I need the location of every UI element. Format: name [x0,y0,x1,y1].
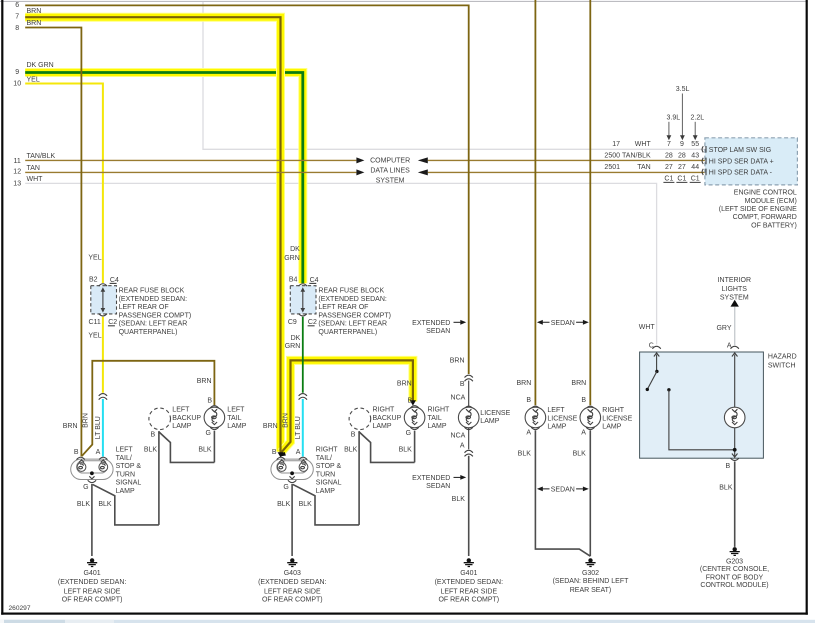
svg-text:28: 28 [678,152,686,159]
svg-text:10: 10 [13,80,21,87]
svg-text:RIGHT: RIGHT [428,407,451,414]
right license lamp BRN vertical [589,0,591,405]
svg-text:BLK: BLK [277,501,291,508]
svg-text:28: 28 [665,152,673,159]
svg-text:LEFT REAR SIDE: LEFT REAR SIDE [64,588,121,595]
left license lamp BRN vertical [534,0,536,405]
svg-text:G: G [83,484,88,491]
svg-text:2501: 2501 [604,164,620,171]
svg-text:G: G [283,484,288,491]
wire 17 WHT vertical+horizontal to ECM [203,2,705,150]
svg-text:A: A [96,449,101,456]
switch blade [647,371,657,389]
svg-text:TAIL/: TAIL/ [316,455,332,462]
svg-text:G: G [205,430,210,437]
svg-text:(SEDAN: BEHIND LEFT: (SEDAN: BEHIND LEFT [553,578,630,585]
svg-text:8: 8 [15,25,19,32]
svg-text:LT BLU: LT BLU [295,416,302,439]
svg-text:11: 11 [14,158,21,165]
svg-text:PASSENGER COMPT): PASSENGER COMPT) [318,312,391,319]
svg-text:B: B [272,449,277,456]
svg-text:55: 55 [691,141,699,148]
svg-text:YEL: YEL [88,333,101,340]
lamp: left license [531,406,539,408]
svg-text:2.2L: 2.2L [690,115,704,122]
svg-text:EXTENDED: EXTENDED [412,475,450,482]
svg-text:(EXTENDED SEDAN:: (EXTENDED SEDAN: [258,579,327,586]
svg-text:LEFT REAR OF: LEFT REAR OF [119,304,169,311]
fuse block C4/C2 left (B2/C11) [88,276,118,326]
svg-text:17: 17 [612,141,620,148]
inline connector on left YEL/LT BLU wire [99,394,107,400]
svg-text:LAMP: LAMP [547,424,566,431]
svg-text:NCA: NCA [451,433,466,440]
wire LT BLU left [102,399,104,457]
svg-text:BRN: BRN [450,358,465,365]
svg-text:LICENSE: LICENSE [602,415,632,422]
wire BLK left backup lamp B to left tail lamp G [159,432,215,463]
wire 11 TAN/BLK row left part [25,159,356,161]
svg-text:BLK: BLK [77,501,91,508]
ground G203 [730,547,740,555]
op ECM box [705,138,798,185]
svg-text:TAN/BLK: TAN/BLK [27,153,56,160]
lamp: right backup (dashed) [349,408,371,430]
lamp: right tail [404,407,425,428]
svg-text:(CENTER CONSOLE,: (CENTER CONSOLE, [700,566,769,573]
svg-text:LICENSE: LICENSE [480,410,510,417]
svg-text:GRN: GRN [285,343,301,350]
svg-text:C9: C9 [288,319,297,326]
svg-text:12: 12 [13,169,21,176]
svg-text:TAIL: TAIL [428,415,442,422]
svg-text:HI SPD SER DATA -: HI SPD SER DATA - [709,169,773,176]
svg-text:LT BLU: LT BLU [95,416,102,439]
svg-text:LAMP: LAMP [428,423,447,430]
svg-text:BLK: BLK [518,451,532,458]
svg-text:BACKUP: BACKUP [172,415,201,422]
svg-text:MODULE (ECM): MODULE (ECM) [745,198,797,205]
svg-text:BRN: BRN [263,423,278,430]
svg-text:SIGNAL: SIGNAL [116,480,142,487]
svg-text:BLK: BLK [573,451,587,458]
lamp: left tail [204,407,225,428]
svg-text:B: B [460,381,465,388]
svg-text:(SEDAN: LEFT REAR: (SEDAN: LEFT REAR [119,321,188,328]
svg-text:(EXTENDED SEDAN:: (EXTENDED SEDAN: [119,296,188,303]
svg-text:(EXTENDED SEDAN:: (EXTENDED SEDAN: [435,579,504,586]
frame left border [1,0,3,615]
svg-text:OF REAR COMPT): OF REAR COMPT) [62,597,123,604]
svg-text:LEFT: LEFT [547,407,565,414]
svg-text:G401: G401 [84,570,101,577]
svg-text:STOP LAM SW SIG: STOP LAM SW SIG [709,147,771,154]
svg-text:G302: G302 [582,570,599,577]
svg-text:B: B [207,398,212,405]
svg-text:LIGHTS: LIGHTS [722,286,748,293]
svg-text:A: A [581,430,586,437]
svg-text:DK GRN: DK GRN [27,62,54,69]
hazard GRY wire [734,307,736,345]
svg-text:A: A [460,443,465,450]
svg-text:27: 27 [665,164,673,171]
svg-text:(EXTENDED SEDAN:: (EXTENDED SEDAN: [318,296,387,303]
svg-text:BRN: BRN [197,378,212,385]
wire 10 YEL [25,84,103,284]
svg-text:SIGNAL: SIGNAL [316,480,342,487]
svg-text:B2: B2 [89,276,98,283]
svg-text:BRN: BRN [27,20,42,27]
arrow to interior lights system [731,300,739,307]
svg-text:LEFT: LEFT [116,447,134,454]
svg-text:LAMP: LAMP [602,424,621,431]
wire 12 arrow left [418,169,428,175]
branch core BRN to right tail [281,360,413,452]
svg-text:B: B [581,397,586,404]
svg-text:BLK: BLK [299,501,313,508]
svg-text:TAN/BLK: TAN/BLK [622,152,651,159]
svg-text:C2: C2 [308,319,317,326]
svg-text:TAIL/: TAIL/ [116,455,132,462]
svg-text:BRN: BRN [517,380,532,387]
ground G403 [287,558,297,566]
svg-text:CONTROL MODULE): CONTROL MODULE) [700,582,768,589]
lamp: right tail/stop & turn signal [271,457,313,482]
ECM pin connectors [702,146,706,175]
pin B hazard switch [731,458,739,460]
svg-text:3.9L: 3.9L [666,115,680,122]
highlight band branch to right tail lamp [281,360,413,452]
svg-text:PASSENGER COMPT): PASSENGER COMPT) [119,312,192,319]
svg-text:BLK: BLK [144,446,158,453]
wire 11 arrow left [418,157,428,163]
switch pole from C [654,353,659,372]
svg-text:REAR SEAT): REAR SEAT) [570,587,612,594]
svg-text:ENGINE CONTROL: ENGINE CONTROL [734,190,797,197]
svg-text:3.5L: 3.5L [676,86,690,93]
svg-text:7: 7 [667,141,671,148]
svg-text:SYSTEM: SYSTEM [376,178,405,185]
arrowhead highlight end at right tail lamp B [410,400,416,405]
svg-text:260297: 260297 [9,605,31,612]
left BRN branch stop lamp B to left tail lamp B [82,361,215,456]
frame top border [0,0,808,3]
svg-text:SWITCH: SWITCH [768,362,796,369]
svg-text:TURN: TURN [316,471,335,478]
svg-text:(SEDAN: LEFT REAR: (SEDAN: LEFT REAR [318,321,387,328]
svg-text:(LEFT SIDE OF ENGINE: (LEFT SIDE OF ENGINE [719,206,797,213]
svg-text:FRONT OF BODY: FRONT OF BODY [706,574,764,581]
wire 6 BRN row and license lamp drop [25,5,469,374]
bottom ui strip [0,620,815,623]
svg-text:B4: B4 [289,276,298,283]
wire branch inside hazard switch [669,390,735,450]
svg-text:LEFT: LEFT [172,407,190,414]
wire 12 TAN row left part [25,171,356,173]
svg-text:SEDAN: SEDAN [551,486,575,493]
highlight band wire 7 BRN [25,17,280,451]
svg-text:LAMP: LAMP [316,488,335,495]
switch contact node to lamp branch [667,388,670,391]
svg-text:YEL: YEL [27,76,40,83]
svg-text:SEDAN: SEDAN [551,320,575,327]
wire BLK left tail lamp G down [213,431,215,463]
svg-text:OF REAR COMPT): OF REAR COMPT) [438,597,499,604]
svg-text:LEFT REAR SIDE: LEFT REAR SIDE [440,588,497,595]
highlight band wire 9 DK GRN [25,73,303,284]
svg-text:C4: C4 [110,277,119,284]
wire 9 DK GRN below fuse block [302,317,304,393]
svg-text:LAMP: LAMP [373,423,392,430]
svg-text:STOP &: STOP & [316,463,342,470]
ground G401 (left) [87,558,97,566]
svg-text:B: B [408,398,413,405]
svg-text:RIGHT: RIGHT [316,447,339,454]
svg-text:TAIL: TAIL [227,415,241,422]
lamp: license [465,406,473,408]
svg-text:13: 13 [13,181,21,188]
svg-text:TURN: TURN [116,471,135,478]
wire BLK right stop lamp G branch [293,484,359,525]
arrowhead highlight end at right stop lamp B [278,452,284,457]
svg-text:A: A [526,430,531,437]
wire 11 right part to ECM [428,159,705,161]
svg-text:COMPUTER: COMPUTER [370,158,410,165]
wire 12 right part to ECM [428,171,705,173]
svg-text:COMPT, FORWARD: COMPT, FORWARD [733,214,797,221]
svg-text:EXTENDED: EXTENDED [412,320,450,327]
wire 7 core BRN [25,17,280,452]
svg-text:BLK: BLK [344,446,358,453]
svg-text:BRN: BRN [27,8,42,15]
svg-text:SEDAN: SEDAN [426,328,450,335]
svg-text:A: A [296,449,301,456]
svg-text:DK: DK [290,246,300,253]
svg-text:REAR FUSE BLOCK: REAR FUSE BLOCK [318,288,384,295]
svg-text:OF REAR COMPT): OF REAR COMPT) [262,597,323,604]
svg-text:BRN: BRN [63,423,78,430]
svg-text:2500: 2500 [604,152,620,159]
svg-text:BRN: BRN [571,380,586,387]
svg-text:WHT: WHT [639,324,656,331]
ground G302 [585,558,595,566]
lamp: hazard indicator [724,407,745,428]
wire BLK right backup lamp B to right tail lamp G [359,432,415,463]
svg-text:C1: C1 [677,176,686,183]
svg-text:QUARTERPANEL): QUARTERPANEL) [119,329,178,336]
svg-text:STOP &: STOP & [116,463,142,470]
svg-text:QUARTERPANEL): QUARTERPANEL) [318,329,377,336]
svg-text:G403: G403 [284,570,301,577]
svg-text:LAMP: LAMP [227,423,246,430]
svg-text:DATA LINES: DATA LINES [370,167,410,174]
wire BLK right tail lamp G down [414,431,416,463]
svg-text:BLK: BLK [399,446,413,453]
hazard main wire A to B [732,353,738,458]
wire 12 arrow right [356,169,364,175]
svg-text:HI SPD SER DATA +: HI SPD SER DATA + [709,158,774,165]
svg-text:BLK: BLK [98,501,112,508]
fuse block C4/C2 right (B4/C9) [288,276,319,326]
svg-text:C1: C1 [664,176,673,183]
svg-text:BLK: BLK [198,446,212,453]
svg-text:LEFT REAR OF: LEFT REAR OF [318,304,368,311]
svg-text:(EXTENDED SEDAN:: (EXTENDED SEDAN: [58,579,127,586]
svg-text:G: G [406,430,411,437]
hazard switch box [640,352,764,458]
svg-text:LEFT REAR SIDE: LEFT REAR SIDE [264,588,321,595]
svg-text:9: 9 [680,141,684,148]
svg-text:BLK: BLK [452,496,466,503]
wire BLK left backup lamp B down [158,431,160,525]
svg-text:27: 27 [678,164,686,171]
svg-text:B: B [74,449,79,456]
wire 8 BRN row and left stop lamp drop [25,28,81,457]
svg-text:TAN: TAN [637,164,650,171]
wire 10 YEL below fuse block [102,317,104,393]
svg-text:9: 9 [15,69,19,76]
svg-text:REAR FUSE BLOCK: REAR FUSE BLOCK [119,288,185,295]
wire BLK right backup lamp B down [358,431,360,525]
svg-text:GRY: GRY [716,325,731,332]
wire 13 WHT row to hazard switch C [25,183,656,344]
svg-text:RIGHT: RIGHT [373,407,396,414]
svg-text:RIGHT: RIGHT [602,407,625,414]
svg-text:7: 7 [15,13,19,20]
wire 11 arrow right [356,157,364,163]
lamp: left backup (dashed) [149,408,171,430]
wire LT BLU right [302,399,304,457]
wire BLK left stop lamp G branch to backup lamp junction [93,484,159,525]
svg-text:B: B [351,431,356,438]
svg-text:LAMP: LAMP [116,488,135,495]
lamp: left tail/stop & turn signal [71,457,113,482]
svg-text:C1: C1 [691,176,700,183]
svg-text:B: B [726,463,731,470]
svg-text:LAMP: LAMP [172,423,191,430]
svg-text:C11: C11 [88,319,100,326]
svg-text:TAN: TAN [27,165,40,172]
svg-text:G401: G401 [460,570,477,577]
svg-text:B: B [526,397,531,404]
ground G401 (center, extended sedan) [464,558,474,566]
svg-text:DK: DK [291,335,301,342]
svg-text:NCA: NCA [451,395,466,402]
frame bottom border [1,613,808,615]
svg-text:B: B [151,431,156,438]
frame right border [806,0,808,615]
junction dot hazard [733,448,737,452]
svg-text:HAZARD: HAZARD [768,354,797,361]
inline connector below license lamp [465,450,473,456]
svg-text:44: 44 [691,164,699,171]
svg-text:LAMP: LAMP [480,418,499,425]
inline connector on license lamp BRN wire [465,375,473,381]
svg-text:BACKUP: BACKUP [373,415,402,422]
svg-text:YEL: YEL [88,254,101,261]
lamp: right license [586,406,594,408]
svg-text:G203: G203 [726,559,743,566]
svg-text:WHT: WHT [635,141,652,148]
svg-text:BRN: BRN [283,413,290,428]
svg-text:6: 6 [15,2,19,9]
svg-text:BRN: BRN [83,413,90,428]
svg-text:INTERIOR: INTERIOR [718,277,751,284]
svg-text:BRN: BRN [397,380,412,387]
svg-text:BLK: BLK [719,485,733,492]
svg-text:43: 43 [691,152,699,159]
wire BLK right stop lamp G to ground G403 [291,484,293,556]
svg-text:OF BATTERY): OF BATTERY) [751,223,797,230]
svg-text:C2: C2 [108,319,117,326]
svg-text:SEDAN: SEDAN [426,483,450,490]
svg-text:LICENSE: LICENSE [547,415,577,422]
svg-text:LEFT: LEFT [227,407,245,414]
wire BLK left stop lamp G to ground G401 [91,484,93,556]
inline connector on right DK GRN/LT BLU wire [299,394,307,400]
svg-text:C4: C4 [310,277,319,284]
wire 9 core DK GRN [25,73,303,284]
svg-text:WHT: WHT [27,176,44,183]
svg-text:GRN: GRN [284,255,300,262]
